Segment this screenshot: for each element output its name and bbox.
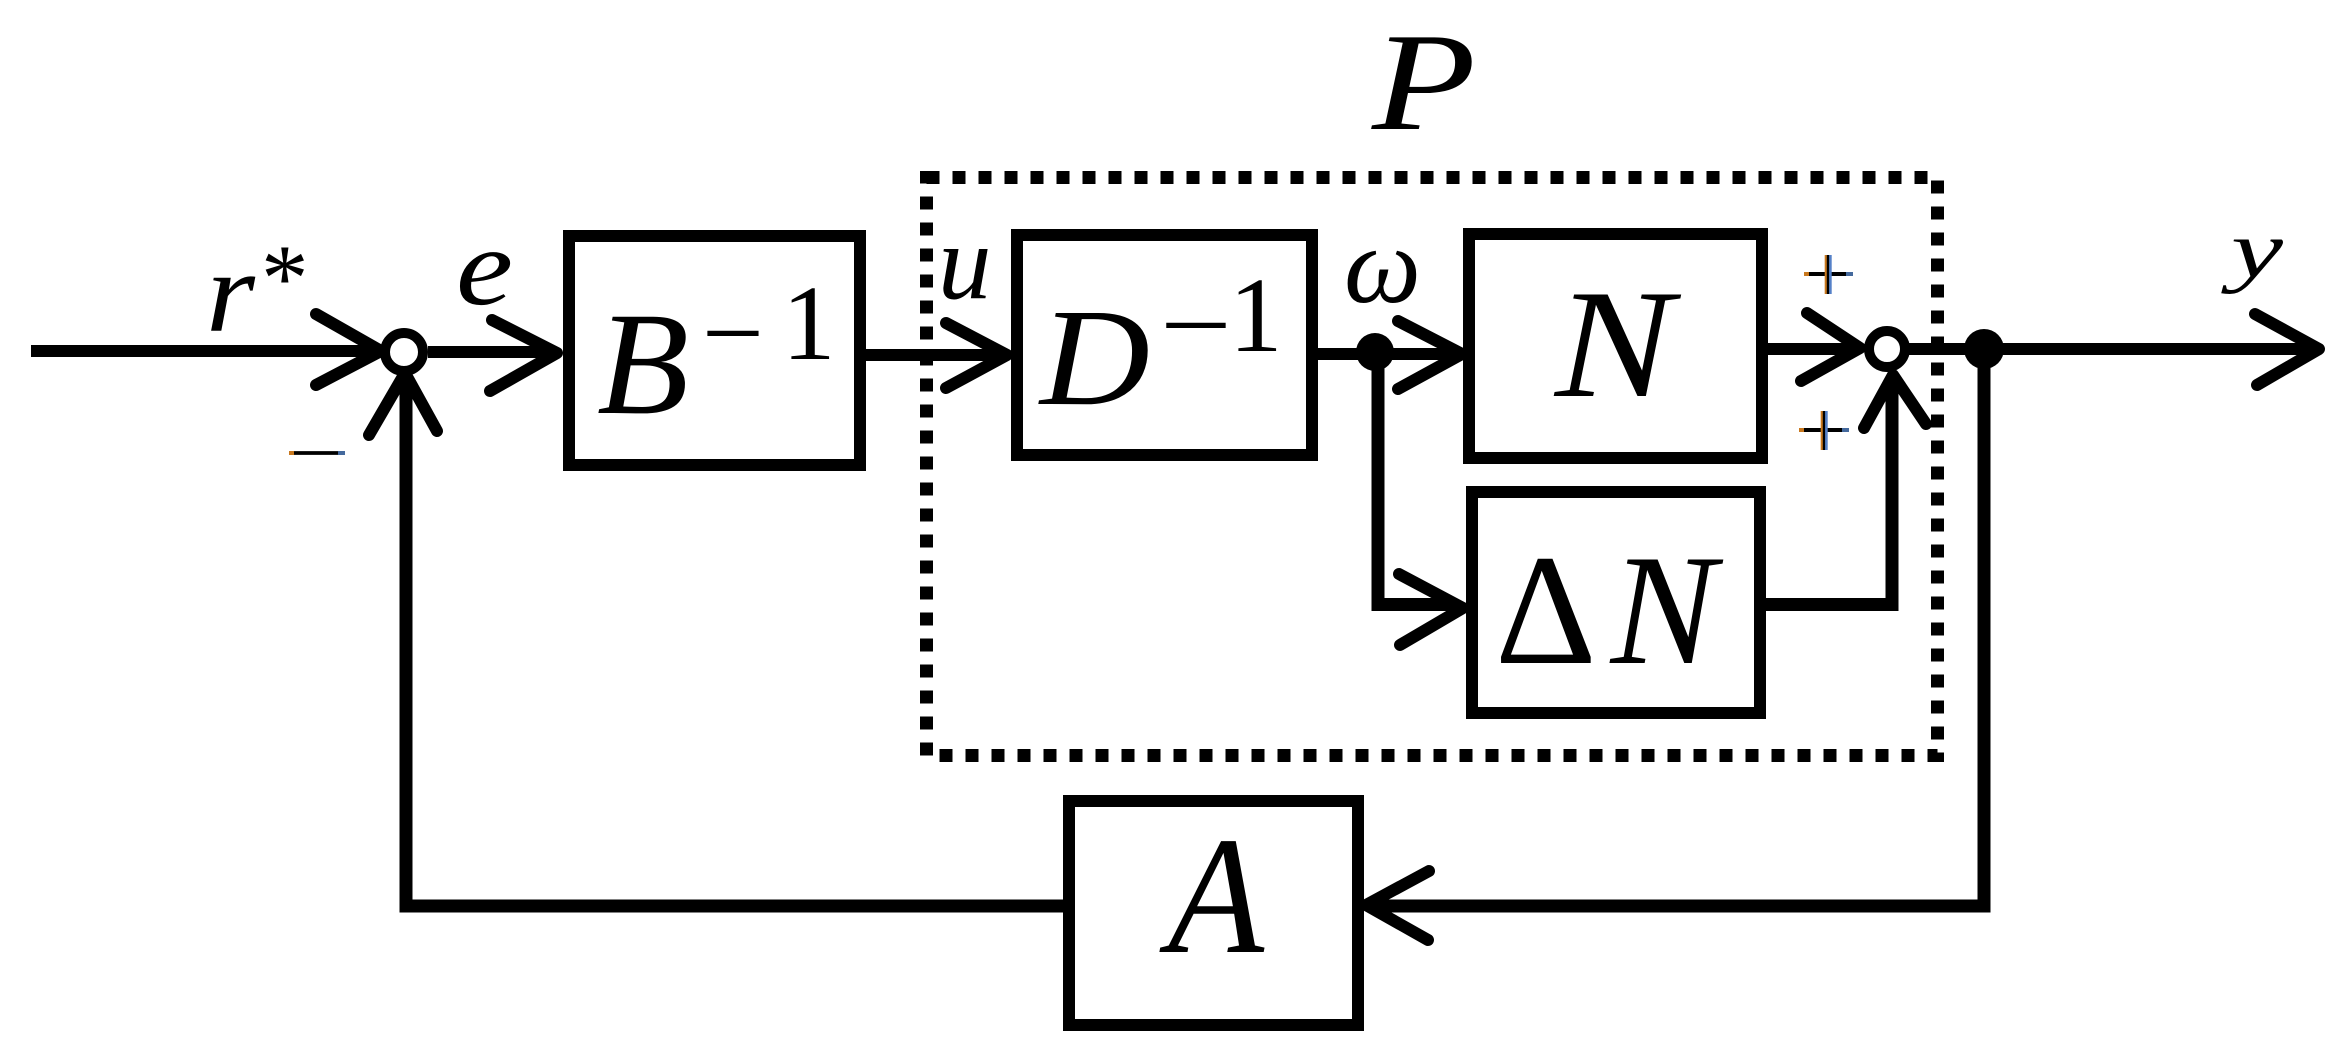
arrowhead into N bbox=[1398, 321, 1462, 389]
wire input r* bbox=[31, 345, 374, 357]
svg-text:1: 1 bbox=[782, 265, 836, 383]
summing junction S1 bbox=[385, 333, 423, 371]
node omega dot bbox=[1356, 333, 1394, 371]
svg-text:D: D bbox=[1038, 281, 1150, 435]
block N bbox=[1469, 234, 1762, 458]
wire Delta-N out bbox=[1760, 382, 1892, 605]
wire omega bbox=[1318, 348, 1455, 360]
svg-text:*: * bbox=[261, 225, 309, 331]
wire omega to Delta-N bbox=[1378, 352, 1452, 605]
arrowhead into summing junction S1 bbox=[316, 314, 381, 385]
wire e bbox=[428, 346, 552, 358]
label minus bbox=[289, 451, 294, 455]
arrowhead output bbox=[2255, 314, 2319, 385]
block D^-1 bbox=[1017, 235, 1312, 455]
wire feedback down-right bbox=[1372, 355, 1984, 906]
svg-text:A: A bbox=[1159, 803, 1266, 989]
arrowhead into summing junction S2 bbox=[1801, 313, 1860, 381]
wire feedback left and up bbox=[406, 380, 1063, 906]
wire N out bbox=[1762, 343, 1856, 355]
label plus lower bbox=[1799, 411, 1849, 450]
svg-text:u: u bbox=[938, 204, 992, 322]
svg-text:y: y bbox=[2221, 207, 2284, 295]
wire output y bbox=[1905, 343, 2312, 355]
arrowhead into D bbox=[946, 323, 1007, 388]
summing junction S2 bbox=[1869, 331, 1905, 367]
svg-text:ω: ω bbox=[1344, 205, 1421, 326]
node output dot bbox=[1964, 329, 2004, 369]
svg-text:−: − bbox=[1160, 267, 1232, 385]
svg-text:N: N bbox=[1553, 258, 1682, 430]
arrowhead up into summing junction S2 bbox=[1864, 375, 1926, 428]
svg-text:r: r bbox=[206, 229, 256, 357]
svg-text:−: − bbox=[702, 275, 764, 393]
arrowhead into B bbox=[490, 320, 557, 391]
arrowhead into Delta-N bbox=[1399, 574, 1463, 645]
svg-text:1: 1 bbox=[1229, 257, 1283, 375]
label plus upper bbox=[1804, 255, 1853, 294]
arrowhead up into summing junction S1 bbox=[369, 373, 437, 435]
block B^-1 bbox=[569, 236, 860, 465]
svg-text:B: B bbox=[597, 282, 689, 445]
wire u bbox=[866, 349, 1000, 361]
block A bbox=[1069, 801, 1358, 1025]
svg-text:e: e bbox=[456, 206, 513, 328]
svg-text:P: P bbox=[1371, 5, 1476, 160]
dotted box P bbox=[927, 178, 1938, 756]
block Delta-N bbox=[1472, 492, 1760, 713]
arrowhead into A bbox=[1366, 871, 1429, 940]
